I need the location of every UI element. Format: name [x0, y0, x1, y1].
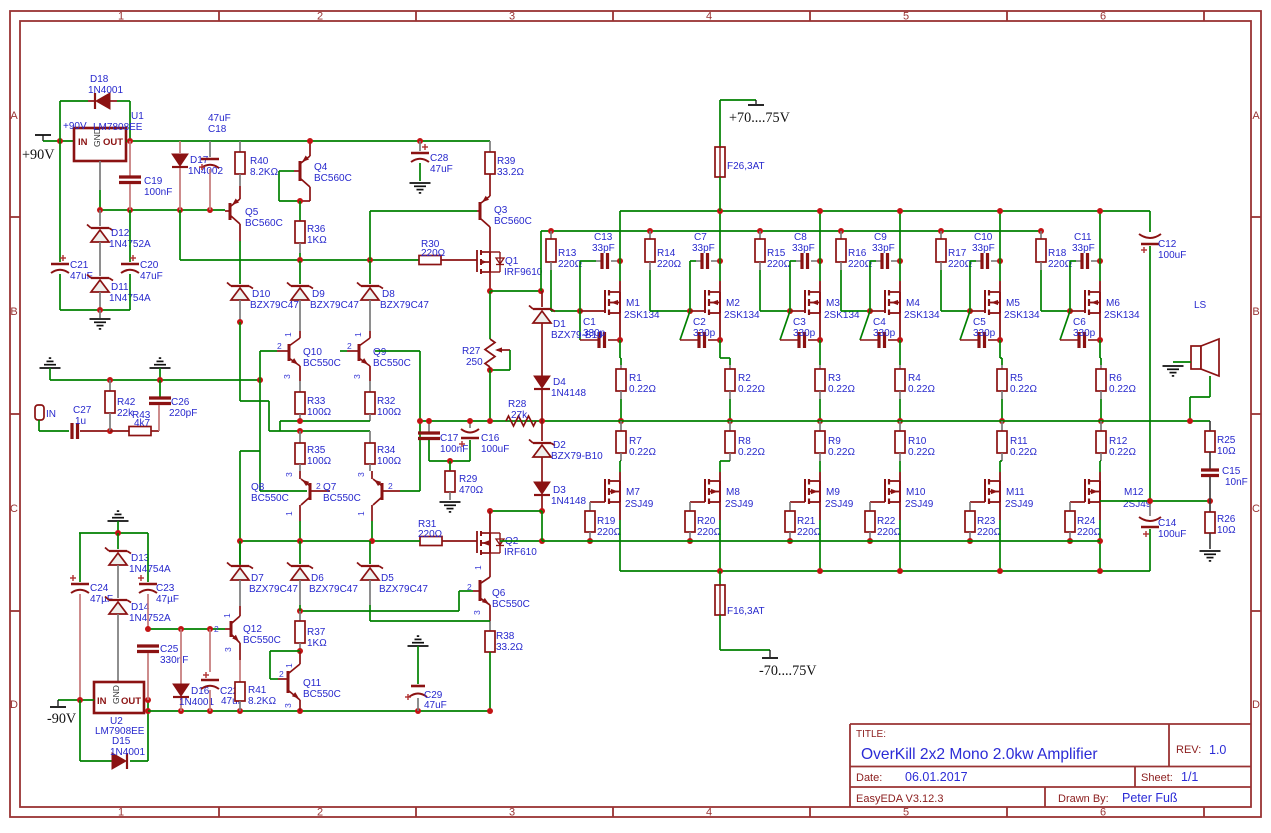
svg-text:OverKill 2x2 Mono 2.0kw Amplif: OverKill 2x2 Mono 2.0kw Amplifier: [861, 746, 1098, 763]
svg-text:4: 4: [706, 11, 712, 23]
svg-text:100nF: 100nF: [440, 444, 468, 455]
diode D15: [112, 753, 126, 769]
svg-text:0.22Ω: 0.22Ω: [629, 384, 656, 395]
svg-text:3: 3: [223, 647, 233, 652]
wire: [1099, 211, 1101, 281]
node: [717, 568, 723, 574]
mosfet M6: [1099, 281, 1101, 292]
node: [1067, 538, 1073, 544]
svg-text:0.22Ω: 0.22Ω: [828, 384, 855, 395]
svg-text:BC560C: BC560C: [314, 173, 352, 184]
resistor R37: [299, 611, 301, 621]
mosfet Q2: [489, 511, 491, 533]
svg-text:2: 2: [279, 669, 284, 679]
zener D6: [299, 541, 301, 564]
resistor R22: [870, 501, 885, 503]
svg-text:R26: R26: [1217, 514, 1236, 525]
zener D7: [239, 541, 241, 564]
svg-text:D15: D15: [112, 736, 131, 747]
svg-text:EasyEDA V3.12.3: EasyEDA V3.12.3: [856, 793, 943, 805]
node: [145, 708, 151, 714]
svg-text:220Ω: 220Ω: [697, 527, 722, 538]
svg-text:5: 5: [903, 807, 909, 819]
svg-text:1N4148: 1N4148: [551, 496, 586, 507]
svg-text:R41: R41: [248, 685, 267, 696]
svg-text:0.22Ω: 0.22Ω: [908, 447, 935, 458]
svg-text:D3: D3: [553, 485, 566, 496]
svg-text:6: 6: [1100, 11, 1106, 23]
node: [687, 308, 693, 314]
svg-text:BC560C: BC560C: [494, 216, 532, 227]
svg-text:LS: LS: [1194, 300, 1207, 311]
svg-text:D7: D7: [251, 573, 264, 584]
svg-text:M4: M4: [906, 298, 920, 309]
svg-text:BZX79C47: BZX79C47: [379, 584, 428, 595]
svg-text:M3: M3: [826, 298, 840, 309]
capacitor C27: [70, 423, 73, 439]
svg-text:1KΩ: 1KΩ: [307, 638, 327, 649]
svg-text:C24: C24: [90, 583, 109, 594]
svg-text:100Ω: 100Ω: [377, 407, 402, 418]
capacitor C19: [129, 141, 131, 176]
capacitor C29: [408, 645, 429, 647]
svg-text:220Ω: 220Ω: [421, 248, 446, 259]
svg-text:Q7: Q7: [323, 482, 337, 493]
zener D14: [109, 599, 127, 601]
wire: [540, 231, 542, 291]
svg-text:IRF610: IRF610: [504, 547, 537, 558]
capacitor C9: [876, 260, 881, 262]
svg-text:C27: C27: [73, 405, 92, 416]
node: [897, 418, 903, 424]
resistor R5: [1001, 365, 1003, 369]
ground: [1163, 365, 1184, 367]
wire: [239, 224, 241, 241]
svg-text:1N4752A: 1N4752A: [129, 613, 171, 624]
svg-text:M7: M7: [626, 487, 640, 498]
wire: [789, 261, 791, 311]
svg-text:R29: R29: [459, 474, 478, 485]
node: [177, 207, 183, 213]
wire: [490, 290, 541, 292]
resistor R21: [790, 501, 805, 503]
wire: [429, 460, 470, 462]
svg-text:M9: M9: [826, 487, 840, 498]
wire: [819, 399, 821, 421]
svg-text:C7: C7: [694, 232, 707, 243]
resistor R26: [1209, 501, 1211, 512]
node: [297, 648, 303, 654]
resistor R17: [940, 231, 942, 239]
node: [539, 508, 545, 514]
ground: [99, 310, 101, 318]
wire: [369, 211, 371, 260]
wire: [899, 461, 901, 472]
svg-text:C11: C11: [1074, 232, 1092, 243]
node: [487, 708, 493, 714]
node: [867, 308, 873, 314]
node: [487, 288, 493, 294]
resistor R35: [299, 431, 301, 443]
svg-text:3: 3: [509, 807, 515, 819]
node: [717, 208, 723, 214]
svg-text:220Ω: 220Ω: [1048, 259, 1073, 270]
svg-text:R39: R39: [497, 156, 516, 167]
title block: [850, 723, 1251, 725]
node: [307, 138, 313, 144]
svg-text:R7: R7: [629, 436, 642, 447]
node: [1067, 308, 1073, 314]
resistor R34: [369, 431, 371, 443]
capacitor C22: [209, 629, 211, 672]
svg-text:R21: R21: [797, 516, 816, 527]
svg-text:IN: IN: [78, 137, 88, 148]
svg-text:D2: D2: [553, 440, 566, 451]
port IN: [35, 405, 44, 420]
svg-text:R38: R38: [496, 631, 515, 642]
wire: [280, 420, 370, 422]
node: [997, 337, 1003, 343]
capacitor C18: [209, 141, 211, 157]
node: [127, 138, 133, 144]
mosfet M1: [619, 281, 621, 292]
mosfet M2: [719, 281, 721, 292]
node: [127, 207, 133, 213]
wire: [719, 313, 721, 340]
svg-text:0.22Ω: 0.22Ω: [629, 447, 656, 458]
svg-text:33pF: 33pF: [872, 243, 895, 254]
svg-text:M2: M2: [726, 298, 740, 309]
mosfet M10: [899, 472, 901, 481]
zener D13: [117, 533, 119, 549]
svg-text:33.2Ω: 33.2Ω: [497, 167, 524, 178]
svg-text:M8: M8: [726, 487, 740, 498]
wire: [620, 460, 621, 462]
mosfet M7: [619, 472, 621, 481]
svg-text:C19: C19: [144, 176, 163, 187]
mosfet M9: [819, 472, 821, 481]
node: [487, 418, 493, 424]
node: [487, 367, 493, 373]
wire: [759, 270, 761, 311]
node: [727, 418, 733, 424]
svg-text:1: 1: [222, 613, 232, 618]
node: [757, 228, 763, 234]
svg-text:0.22Ω: 0.22Ω: [1109, 384, 1136, 395]
svg-text:R36: R36: [307, 224, 326, 235]
svg-text:06.01.2017: 06.01.2017: [905, 770, 968, 784]
wire: [39, 430, 69, 432]
node: [997, 258, 1003, 264]
svg-text:D6: D6: [311, 573, 324, 584]
node: [997, 568, 1003, 574]
node: [1097, 337, 1103, 343]
node: [1187, 418, 1193, 424]
svg-text:2: 2: [317, 807, 323, 819]
svg-text:Sheet:: Sheet:: [1141, 772, 1173, 784]
wire: [260, 490, 307, 492]
svg-text:R28: R28: [508, 399, 527, 410]
svg-text:100uF: 100uF: [481, 444, 509, 455]
net flag +70....75V: [720, 99, 756, 101]
wire: [620, 399, 622, 421]
capacitor C11: [1076, 260, 1081, 262]
net flag +90V: [35, 134, 51, 136]
svg-text:C15: C15: [1222, 466, 1241, 477]
svg-text:330nF: 330nF: [160, 655, 188, 666]
svg-text:C28: C28: [430, 153, 449, 164]
zener D12: [99, 210, 101, 226]
svg-text:REV:: REV:: [1176, 744, 1201, 756]
svg-text:D9: D9: [312, 289, 325, 300]
zener D11: [91, 277, 109, 279]
svg-text:OUT: OUT: [121, 696, 141, 707]
svg-text:2SJ49: 2SJ49: [725, 499, 754, 510]
wire: [899, 313, 901, 340]
svg-text:0.22Ω: 0.22Ω: [738, 384, 765, 395]
svg-text:1: 1: [284, 663, 294, 668]
svg-text:3: 3: [283, 703, 293, 708]
diode D4: [534, 376, 550, 388]
svg-text:R25: R25: [1217, 435, 1236, 446]
svg-text:C5: C5: [973, 317, 986, 328]
node: [817, 337, 823, 343]
ground: [1200, 550, 1221, 552]
svg-text:1: 1: [473, 565, 483, 570]
node: [115, 530, 121, 536]
resistor R42: [109, 380, 111, 391]
svg-text:C23: C23: [156, 583, 175, 594]
svg-text:D13: D13: [131, 553, 150, 564]
node: [687, 538, 693, 544]
node: [77, 697, 83, 703]
node: [157, 377, 163, 383]
svg-text:1N4148: 1N4148: [551, 388, 586, 399]
svg-text:220Ω: 220Ω: [797, 527, 822, 538]
node: [417, 418, 423, 424]
svg-text:1N4001: 1N4001: [179, 697, 214, 708]
svg-text:R20: R20: [697, 516, 716, 527]
svg-text:1/1: 1/1: [1181, 770, 1198, 784]
svg-text:BZX79C47: BZX79C47: [380, 300, 429, 311]
svg-text:220Ω: 220Ω: [418, 529, 443, 540]
resistor R18: [1040, 231, 1042, 239]
resistor R3: [819, 365, 821, 369]
capacitor C12: [1149, 211, 1151, 232]
node: [237, 538, 243, 544]
node: [787, 538, 793, 544]
ground: [440, 501, 461, 503]
capacitor C17: [428, 421, 430, 432]
node: [467, 418, 473, 424]
regulator U1: [74, 128, 126, 161]
svg-text:LM7808EE: LM7808EE: [93, 122, 143, 133]
svg-text:C1: C1: [583, 317, 596, 328]
svg-text:GND: GND: [111, 685, 121, 704]
wire: [371, 521, 373, 541]
svg-text:TITLE:: TITLE:: [856, 729, 886, 740]
svg-text:2SK134: 2SK134: [724, 310, 760, 321]
node: [838, 228, 844, 234]
resistor R13: [550, 231, 552, 239]
node: [1097, 538, 1103, 544]
svg-text:100uF: 100uF: [1158, 529, 1186, 540]
resistor R2: [729, 365, 731, 369]
svg-text:0.22Ω: 0.22Ω: [1109, 447, 1136, 458]
node: [97, 207, 103, 213]
svg-text:C3: C3: [793, 317, 806, 328]
transistor Q7: [371, 471, 373, 479]
wire: [899, 211, 901, 281]
zener D8: [369, 261, 371, 284]
node: [548, 228, 554, 234]
capacitor C24: [79, 533, 81, 582]
svg-text:3: 3: [356, 472, 366, 477]
resistor R15: [759, 231, 761, 239]
resistor R10: [899, 421, 901, 431]
svg-text:IRF9610: IRF9610: [504, 267, 543, 278]
net flag -70....75V: [769, 650, 771, 657]
svg-text:R1: R1: [629, 373, 642, 384]
svg-text:Drawn By:: Drawn By:: [1058, 793, 1109, 805]
svg-text:1: 1: [118, 11, 124, 23]
node: [717, 258, 723, 264]
svg-text:3: 3: [352, 374, 362, 379]
svg-text:100Ω: 100Ω: [307, 456, 332, 467]
capacitor C7: [696, 260, 701, 262]
svg-text:0.22Ω: 0.22Ω: [828, 447, 855, 458]
wire: [1100, 500, 1210, 502]
wire: [279, 421, 281, 431]
capacitor C5: [960, 311, 970, 340]
node: [817, 258, 823, 264]
resistor R36: [299, 201, 301, 221]
capacitor C10: [976, 260, 981, 262]
capacitor C14: [1149, 500, 1151, 516]
resistor R40: [239, 141, 241, 152]
ground: [40, 367, 61, 369]
node: [787, 308, 793, 314]
svg-text:OUT: OUT: [103, 137, 123, 148]
node: [577, 308, 583, 314]
node: [897, 258, 903, 264]
node: [426, 418, 432, 424]
wire: [579, 261, 581, 311]
resistor R28: [506, 416, 536, 426]
node: [207, 708, 213, 714]
wire: [819, 313, 821, 340]
node: [207, 626, 213, 632]
svg-text:+90V: +90V: [63, 121, 87, 132]
svg-text:33pF: 33pF: [592, 243, 615, 254]
svg-text:D14: D14: [131, 602, 150, 613]
svg-text:U1: U1: [131, 111, 144, 122]
wire: [729, 399, 731, 421]
capacitor C13: [596, 260, 601, 262]
node: [817, 418, 823, 424]
node: [297, 257, 303, 263]
zener D9: [299, 261, 301, 284]
resistor R6: [1100, 365, 1102, 369]
node: [867, 538, 873, 544]
svg-text:R4: R4: [908, 373, 921, 384]
wire: [541, 230, 1041, 232]
wire: [619, 502, 621, 520]
svg-text:R3: R3: [828, 373, 841, 384]
svg-text:C26: C26: [171, 397, 190, 408]
svg-text:D18: D18: [90, 74, 109, 85]
svg-text:330p: 330p: [693, 328, 716, 339]
node: [618, 418, 624, 424]
svg-text:10Ω: 10Ω: [1217, 446, 1236, 457]
svg-text:2: 2: [277, 341, 282, 351]
capacitor C20: [129, 210, 131, 262]
svg-text:2SJ49: 2SJ49: [825, 499, 854, 510]
svg-text:R22: R22: [877, 516, 896, 527]
zener D1: [541, 291, 543, 307]
svg-text:R33: R33: [307, 396, 326, 407]
svg-text:M6: M6: [1106, 298, 1120, 309]
node: [297, 418, 303, 424]
node: [1147, 498, 1153, 504]
svg-text:+90V: +90V: [22, 147, 55, 163]
wire: [239, 322, 241, 401]
wire: [180, 259, 419, 261]
wire: [459, 590, 473, 592]
resistor R14: [649, 231, 651, 239]
node: [538, 288, 544, 294]
svg-text:R24: R24: [1077, 516, 1096, 527]
wire: [100, 209, 225, 211]
svg-text:R32: R32: [377, 396, 396, 407]
wire: [969, 261, 971, 311]
resistor R29: [449, 461, 451, 471]
resistor R24: [1070, 501, 1085, 503]
svg-text:C25: C25: [160, 644, 179, 655]
svg-text:D11: D11: [111, 282, 129, 293]
svg-text:1N4754A: 1N4754A: [129, 564, 171, 575]
svg-text:2: 2: [316, 481, 321, 491]
svg-text:2: 2: [347, 341, 352, 351]
regulator U2: [94, 682, 144, 713]
svg-text:220Ω: 220Ω: [558, 259, 583, 270]
svg-text:220Ω: 220Ω: [877, 527, 902, 538]
svg-text:1N4001: 1N4001: [110, 747, 145, 758]
svg-text:Q11: Q11: [303, 678, 322, 689]
zener D2: [541, 421, 543, 441]
zener D10: [231, 285, 249, 287]
resistor R8: [729, 421, 731, 431]
svg-text:330p: 330p: [973, 328, 996, 339]
svg-text:A: A: [10, 110, 18, 122]
resistor R39: [489, 141, 491, 152]
resistor R25: [1209, 421, 1211, 431]
wire: [126, 140, 490, 142]
svg-text:10Ω: 10Ω: [1217, 525, 1236, 536]
mosfet M12: [1099, 472, 1101, 481]
svg-text:330p: 330p: [793, 328, 816, 339]
svg-text:0.22Ω: 0.22Ω: [738, 447, 765, 458]
svg-text:C12: C12: [1158, 239, 1177, 250]
svg-text:220Ω: 220Ω: [657, 259, 682, 270]
capacitor C1: [579, 311, 581, 340]
svg-text:BC550C: BC550C: [303, 689, 341, 700]
wire: [869, 261, 871, 311]
svg-text:1N4001: 1N4001: [88, 85, 123, 96]
wire: [819, 502, 821, 520]
svg-text:220Ω: 220Ω: [977, 527, 1002, 538]
node: [178, 708, 184, 714]
